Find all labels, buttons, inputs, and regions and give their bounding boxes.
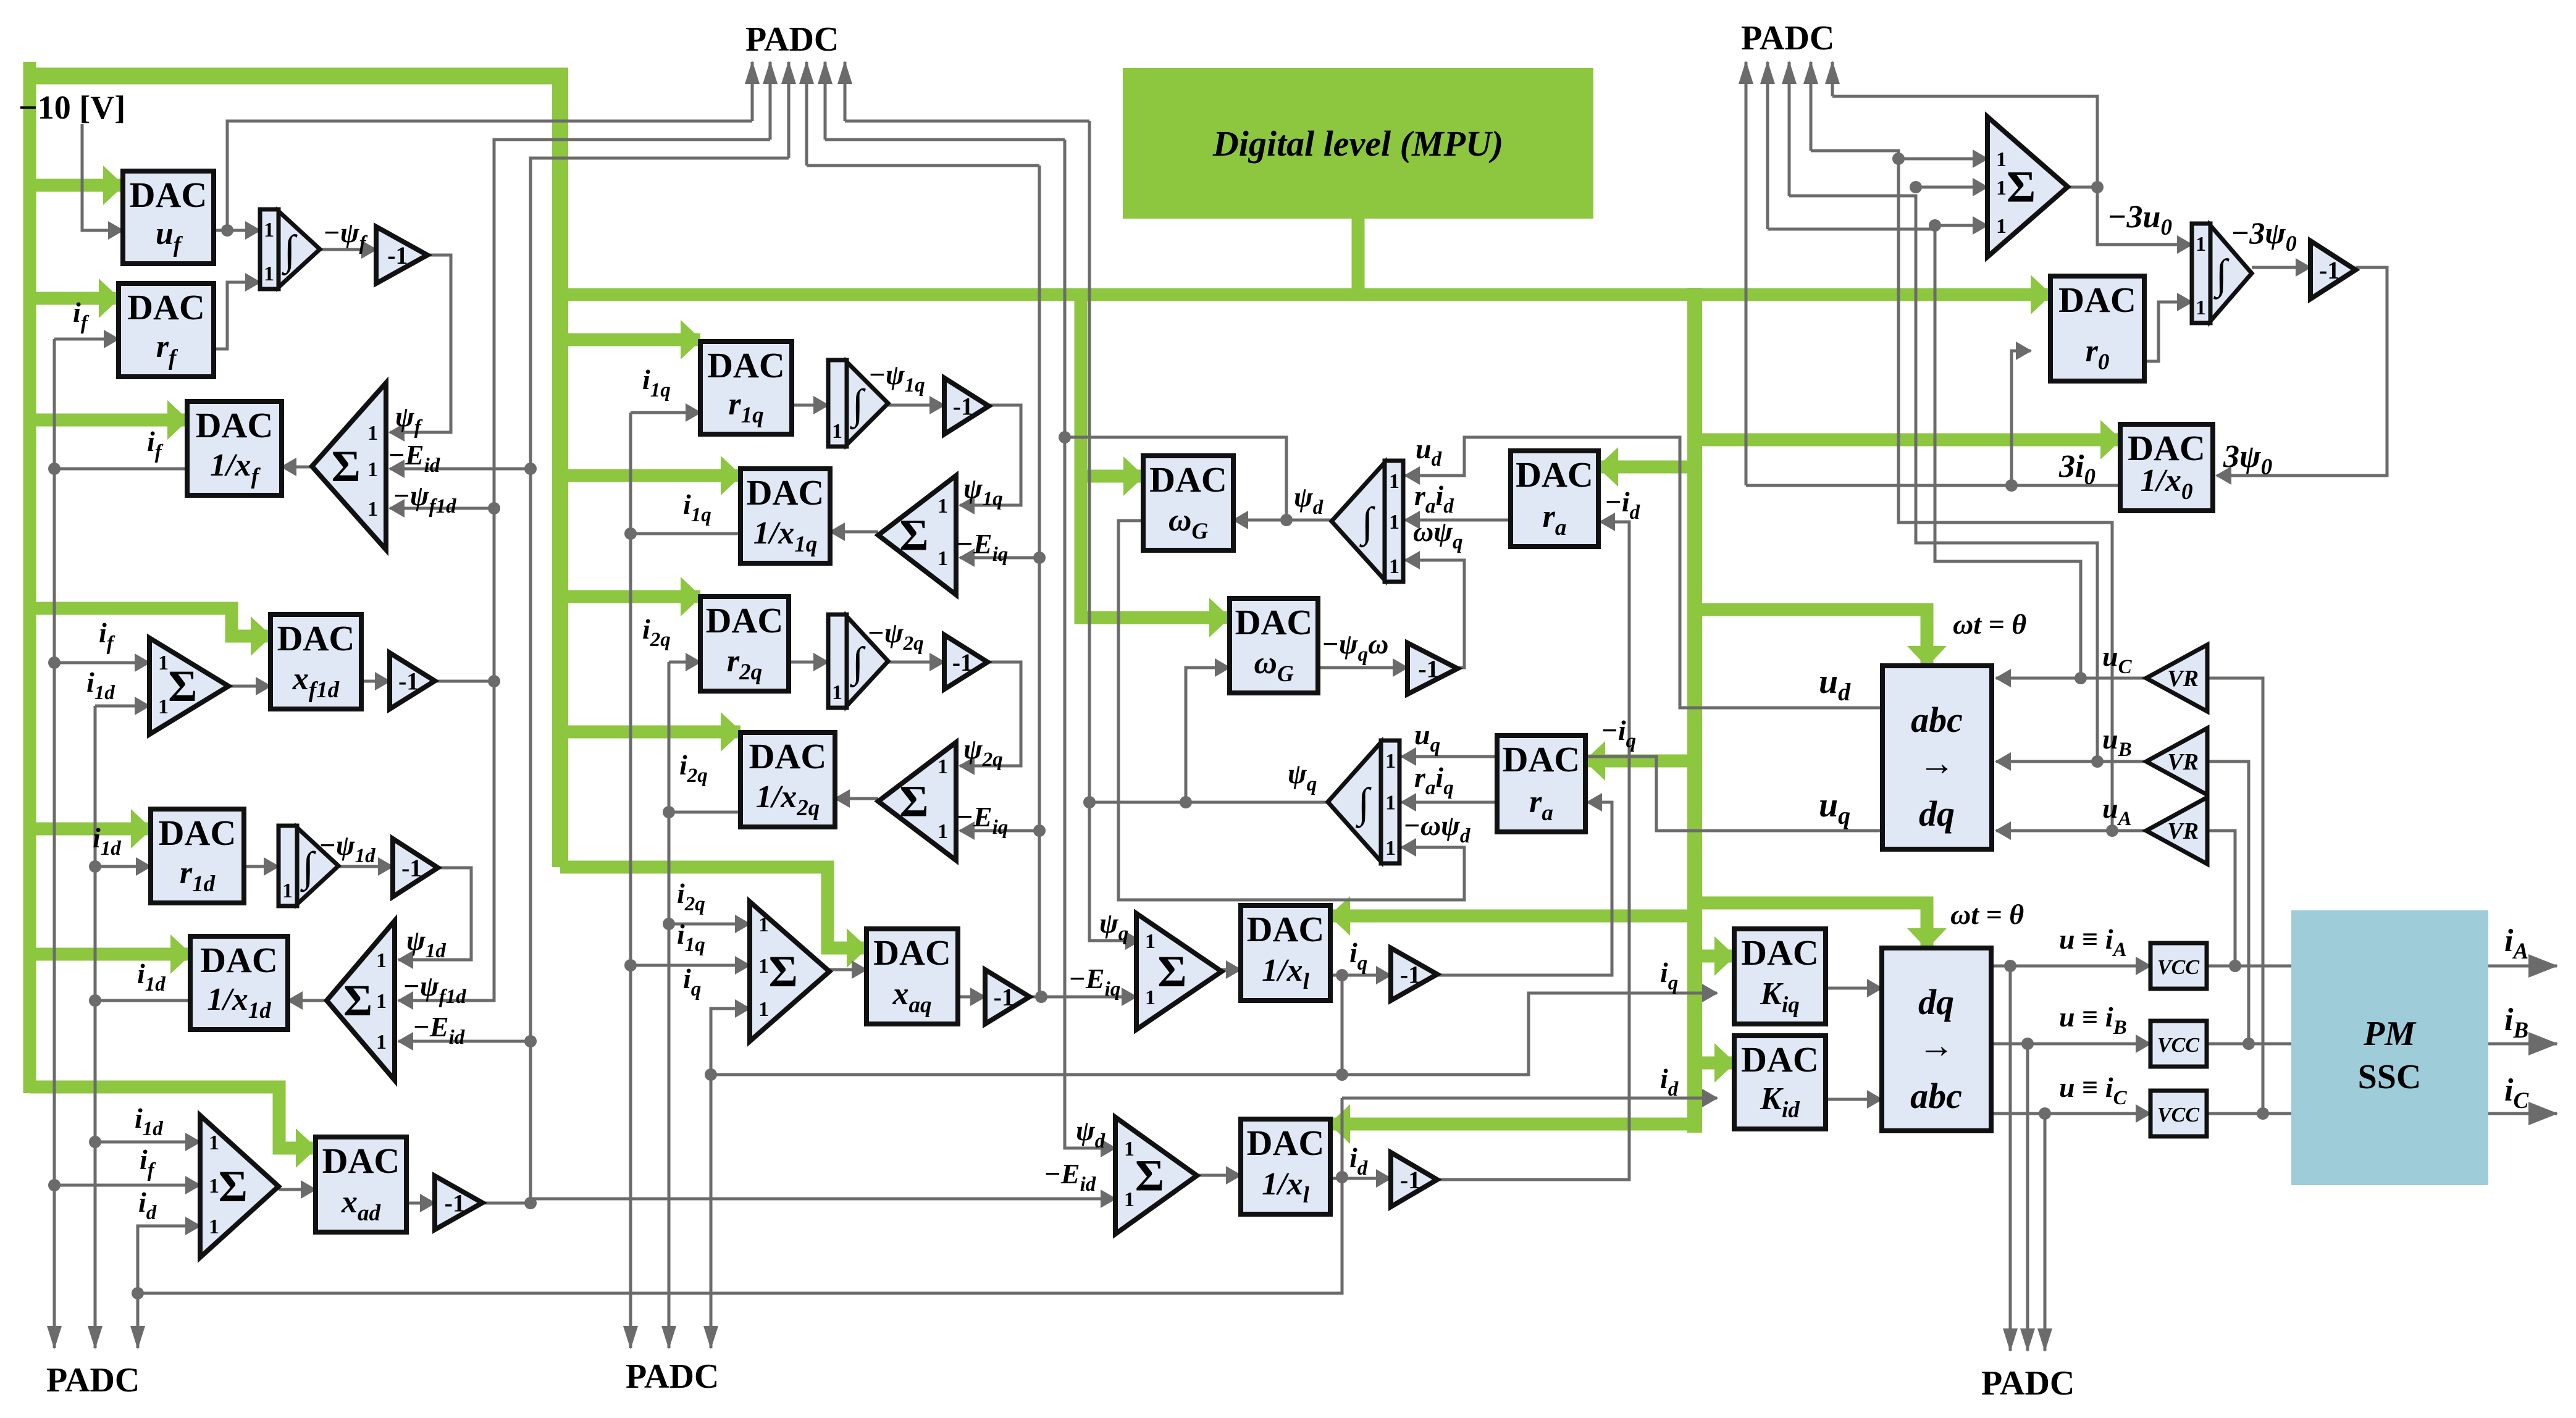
node -Eiq tee 1 [1033, 552, 1046, 564]
svg-text:1: 1 [938, 755, 948, 778]
node -Eid tee 2 [524, 1035, 537, 1047]
node psi_q tee 2 [1180, 796, 1192, 808]
wire w.psiq into integrator Id [1405, 560, 1464, 668]
node u=iC tee [2039, 1107, 2051, 1120]
svg-text:1: 1 [158, 695, 169, 718]
green stem from MPU box [1352, 217, 1365, 295]
summer S1xq (1/x1q) [878, 476, 956, 595]
integrator If (psi_f) [260, 209, 320, 289]
VR amplifier uC [2146, 645, 2207, 711]
green arrow into DAC 1/xl q [1330, 910, 1695, 923]
PADC3 arrow i1d [94, 1327, 97, 1348]
wire i1q into DAC r1q [631, 411, 700, 414]
wire 1/x1d out (i1d) to rail [95, 999, 190, 1002]
summer S1xd (1/x1d) [327, 921, 395, 1080]
node i1q tee 2 [624, 959, 637, 971]
wire psi_f to summer Sf [390, 255, 451, 432]
green arrow into DAC 1/x2q [560, 726, 740, 739]
svg-text:1: 1 [1389, 470, 1399, 493]
svg-text:1: 1 [1145, 986, 1156, 1009]
node i2q tee 1 [663, 806, 675, 818]
wire if vertical rail x=88 [53, 339, 56, 1327]
node -Eiq tee 2 [1033, 824, 1046, 837]
svg-text:1: 1 [2196, 296, 2206, 319]
wire iA output [2488, 965, 2557, 968]
svg-text:1: 1 [264, 219, 274, 241]
svg-text:1: 1 [1385, 792, 1396, 815]
wire if into summer Sxad [54, 1184, 200, 1187]
wire i2q vertical rail x=1083 [668, 662, 671, 1327]
svg-text:DAC: DAC [1235, 602, 1313, 642]
wire -3u0 into integrator I0 [2068, 187, 2192, 245]
summer Siq (1/xl) [1136, 913, 1222, 1030]
node uB tee [1910, 181, 1922, 193]
inverter -1 wG2 [1408, 643, 1458, 694]
wire ra.iq into integrator Iq [1401, 801, 1497, 804]
svg-text:-1: -1 [1400, 961, 1420, 989]
wire inverter xad out (-Eid) to rail [482, 1202, 531, 1205]
svg-text:1: 1 [758, 955, 769, 978]
svg-text:DAC: DAC [322, 1141, 400, 1181]
svg-text:ωt = θ: ωt = θ [1950, 899, 2024, 930]
wire -Eid into summer S1xd [398, 1040, 531, 1043]
wire VCC2 out to PM SSC [2207, 1043, 2291, 1046]
DAC xf1d [271, 615, 361, 709]
svg-text:-1: -1 [2319, 256, 2339, 284]
wire if into summer Sxf1d [54, 661, 149, 665]
wire summer S2xq out to DAC 1/x2q [835, 797, 878, 800]
svg-text:DAC: DAC [200, 940, 278, 980]
PADC1 arrow 4 [805, 62, 808, 166]
wire r1q out to integrator I1q [792, 404, 828, 407]
svg-text:DAC: DAC [1741, 1039, 1819, 1080]
DAC 1/xf [187, 401, 282, 495]
svg-text:1: 1 [832, 681, 842, 704]
green arrow into DAC xad [30, 1087, 316, 1148]
block PM SSC (synchronous machine) [2291, 910, 2488, 1185]
node 3i0 tee [2005, 479, 2018, 492]
VR amplifier uA [2146, 797, 2207, 864]
PADC4 arrow i2q [668, 1327, 671, 1348]
wire psi_d up over to x=1724 [1065, 437, 1286, 520]
wire uC rail [1768, 229, 2081, 678]
green branch to DAC wG2 [1081, 295, 1229, 618]
svg-text:-1: -1 [401, 854, 422, 882]
summer Sxf1d [149, 638, 229, 734]
svg-text:1: 1 [758, 913, 769, 936]
svg-text:DAC: DAC [277, 618, 355, 658]
node VCC3 out tee [2257, 1107, 2269, 1120]
wire i2q into DAC r2q [669, 661, 700, 664]
svg-text:DAC: DAC [196, 405, 274, 445]
wire -Eid into summer Sid [531, 1198, 1115, 1201]
svg-text:Σ: Σ [769, 947, 798, 996]
wire uC into summer S0 [1935, 224, 1987, 227]
wire VR uA feed x=3619 [2207, 831, 2235, 966]
wire i1d into DAC r1d [95, 865, 151, 868]
wire i2q into summer Sxaq [669, 923, 750, 926]
svg-text:-1: -1 [445, 1189, 465, 1217]
block Digital level (MPU) [1123, 68, 1593, 219]
svg-text:1: 1 [282, 879, 293, 902]
node iq rail tee [1336, 1068, 1348, 1081]
wire i1d vertical rail x=154 [94, 706, 97, 1327]
svg-text:VCC: VCC [2157, 956, 2199, 979]
wire psi_q to PADC1 line6 [845, 120, 1089, 123]
integrator I1d (psi_1d) [279, 826, 338, 906]
wire uB into summer S0 [1916, 186, 1987, 189]
wire u=iC into VCC3 [1991, 1112, 2150, 1115]
PADC3 arrow if [53, 1327, 56, 1348]
node if tee 3 [48, 1179, 61, 1191]
DAC r2q [700, 597, 789, 691]
wire i1q into summer Sxaq [631, 964, 750, 967]
svg-text:1: 1 [264, 262, 274, 285]
node -Eid source tee [524, 1197, 537, 1209]
svg-text:−10 [V]: −10 [V] [19, 89, 125, 126]
wire -psi2q to inverter [888, 661, 944, 664]
PADC2 arrow 5 [1831, 62, 1834, 96]
node -Eid tee 1 [524, 463, 537, 475]
DAC ra1 [1511, 451, 1598, 547]
green arrow into DAC rf [30, 292, 119, 305]
svg-text:Σ: Σ [1135, 1151, 1164, 1201]
svg-text:Σ: Σ [899, 777, 928, 826]
wire -10V into DAC uf [82, 124, 123, 230]
svg-text:1: 1 [938, 820, 948, 843]
svg-text:1: 1 [209, 1131, 219, 1154]
wire summer Sxf1d out to DAC xf1d [229, 685, 271, 688]
wire -psi_f to inverter [320, 248, 376, 251]
inverter -1 psi_1d [393, 839, 438, 897]
svg-text:1: 1 [1996, 215, 2007, 238]
wire iC output [2488, 1112, 2557, 1115]
node -Eiq source tee [1035, 991, 1047, 1003]
wire -psif1d rail x=800 to PADC1 line2 [494, 140, 770, 681]
PADC4 arrow i1q [629, 1327, 632, 1348]
svg-text:-1: -1 [952, 648, 973, 676]
svg-text:1: 1 [1145, 930, 1156, 953]
wire id out to inverter [1330, 1177, 1391, 1180]
wire -psif1d into summer S1xd [398, 681, 494, 1001]
green arrow into DAC xaq [560, 867, 866, 948]
svg-text:-1: -1 [953, 393, 973, 421]
wire -psi1q to inverter [888, 404, 944, 407]
svg-text:dq: dq [1919, 794, 1955, 834]
svg-text:VR: VR [2167, 818, 2199, 844]
DAC r1d [151, 809, 244, 903]
wire -psi1d to inverter [338, 865, 393, 868]
wire r1d out to integrator I1d [244, 865, 279, 868]
svg-text:1: 1 [938, 495, 948, 518]
wire -id into DAC ra1 [1437, 522, 1629, 1180]
DAC 1/xl q [1241, 905, 1330, 1001]
wire uB into abc-dq [1996, 760, 2146, 763]
svg-text:VCC: VCC [2157, 1104, 2199, 1126]
svg-text:1: 1 [832, 420, 842, 443]
PADC5 arrow iC [2044, 1114, 2047, 1351]
svg-text:Σ: Σ [343, 976, 372, 1025]
wire -3u0 to PADC2 [1832, 96, 2097, 187]
summer S2xq (1/x2q) [878, 742, 956, 860]
wire id into summer Sxad [138, 1226, 200, 1327]
node iq tee 1 [705, 1068, 717, 1081]
wire xaq out to inverter [958, 996, 985, 999]
DAC Kiq [1734, 929, 1826, 1024]
wire summer Sxaq out to DAC xaq [829, 968, 866, 971]
green bus: left vertical [23, 62, 36, 1093]
VR amplifier uB [2146, 728, 2207, 795]
inverter -1 psi_2q [944, 635, 988, 689]
svg-text:Σ: Σ [219, 1162, 248, 1211]
svg-text:DAC: DAC [706, 600, 784, 640]
wire iq into summer Sxaq [711, 1009, 750, 1075]
svg-text:1: 1 [376, 1031, 387, 1054]
wire uC into abc-dq [1996, 677, 2146, 680]
svg-text:DAC: DAC [130, 175, 208, 215]
integrator Id (psi_d) [1332, 461, 1403, 582]
svg-text:DAC: DAC [2128, 428, 2205, 468]
wire 3psi0 into DAC 1/x0 [2217, 267, 2387, 476]
wire -Eiq into summer Siq [1039, 996, 1136, 999]
svg-text:1: 1 [1385, 750, 1396, 773]
green arrow into DAC uf [30, 179, 123, 192]
DAC 1/x1q [740, 469, 830, 563]
wire id into DAC Kid [1342, 1097, 1717, 1100]
integrator I2q (psi_2q) [828, 615, 888, 708]
green arrow wt=theta into abc-dq [1695, 610, 1927, 666]
wire -3psi0 to inverter [2252, 266, 2310, 269]
green arrow into DAC 1/xl d [1330, 1118, 1695, 1131]
svg-text:Σ: Σ [332, 442, 361, 491]
svg-text:DAC: DAC [1516, 455, 1593, 495]
wire 1/x2q out (i2q) to rail [669, 811, 740, 814]
svg-text:DAC: DAC [1741, 933, 1819, 973]
VCC converter C [2150, 1091, 2207, 1136]
PADC2 arrow 1 [1745, 62, 1748, 485]
svg-text:DAC: DAC [1247, 1123, 1325, 1163]
inverter -1 3psi0 [2310, 241, 2356, 299]
svg-text:1: 1 [938, 547, 948, 570]
node -psif1d tee 1 [488, 502, 500, 514]
svg-text:DAC: DAC [1247, 909, 1325, 949]
DAC uf [123, 171, 214, 264]
node u=iB tee [2021, 1038, 2034, 1050]
wire xad out to inverter [406, 1202, 435, 1205]
node if tee 2 [48, 657, 61, 669]
wire uA into summer S0 [1898, 157, 1987, 161]
node i1d tee 3 [89, 1136, 101, 1148]
wire xf1d out to inverter [361, 680, 390, 683]
svg-text:1: 1 [158, 652, 169, 674]
green arrow wt=theta into dq-abc [1695, 903, 1927, 948]
svg-text:1: 1 [1996, 177, 2007, 199]
svg-text:dq: dq [1918, 982, 1954, 1022]
wire summer Sid out to DAC 1/xl d [1197, 1174, 1241, 1177]
DAC 1/x1d [190, 936, 288, 1030]
wire if into DAC rf [54, 338, 119, 341]
svg-text:1: 1 [1124, 1188, 1135, 1211]
DAC r0 [2050, 276, 2144, 381]
inverter -1 xad [435, 1176, 482, 1230]
svg-text:→: → [1919, 743, 1955, 783]
svg-text:1: 1 [209, 1175, 219, 1198]
PADC5 arrow iB [2026, 1044, 2029, 1351]
DAC ra2 [1497, 736, 1585, 832]
wire summer S1xq out to DAC 1/x1q [830, 531, 878, 534]
inverter -1 xaq [985, 970, 1030, 1024]
wire -Eiq rail x=1683 [1038, 166, 1041, 997]
wire psi_d rail x=1724 into summer Sid [1065, 140, 1115, 1148]
wire r2q out to integrator I2q [789, 661, 828, 664]
svg-text:-1: -1 [1418, 655, 1438, 683]
wire psi_d to PADC1 line5 [825, 138, 1065, 141]
summer Sf (1/xf) [312, 383, 386, 550]
wire uA rail [1811, 151, 2112, 831]
node uC wire tee [2075, 672, 2087, 684]
svg-text:1: 1 [1996, 148, 2007, 171]
node uB wire tee [2091, 755, 2104, 768]
svg-text:-1: -1 [994, 983, 1014, 1011]
DAC r1q [700, 342, 792, 434]
DAC 1/xl d [1241, 1119, 1330, 1214]
DAC xaq [866, 929, 958, 1024]
summer Sxad [200, 1115, 279, 1257]
svg-text:1: 1 [1389, 511, 1399, 534]
svg-text:PADC: PADC [1741, 19, 1834, 57]
wire psi_q from integrator Iq [1089, 801, 1330, 804]
svg-text:DAC: DAC [1149, 459, 1227, 500]
PADC2 arrow 2 [1766, 62, 1769, 229]
summer S0 (-3u0) [1987, 117, 2068, 257]
PADC5 arrow iA [2009, 966, 2012, 1351]
node id out tee [1336, 1171, 1348, 1183]
svg-text:1: 1 [1124, 1138, 1135, 1160]
svg-text:VCC: VCC [2157, 1034, 2199, 1057]
VCC converter A [2150, 943, 2207, 989]
svg-text:-1: -1 [398, 668, 419, 695]
svg-text:DAC: DAC [2058, 280, 2136, 320]
node psi_q tee 1 [1083, 796, 1096, 808]
wire psi_q into DAC wG2 [1186, 668, 1230, 802]
wire psi1d into summer S1xd [398, 868, 471, 960]
DAC xad [316, 1137, 406, 1232]
wire iB output [2488, 1043, 2557, 1046]
wire -psiq.w to inverter [1318, 666, 1408, 669]
wire uB rail [1789, 196, 2097, 761]
wire -psif1d into summer Sf [390, 507, 494, 510]
svg-text:PM: PM [2363, 1015, 2417, 1053]
svg-text:abc: abc [1911, 700, 1963, 740]
inverter -1 psi_1q [944, 378, 989, 434]
wire iq down to rail [1341, 975, 1344, 1075]
svg-text:-1: -1 [1400, 1166, 1420, 1194]
wire psi_q rail x=1764 into summer Siq [1089, 121, 1140, 941]
wire u_d from abc-dq to integrator Id [1405, 437, 1882, 708]
svg-text:VR: VR [2167, 749, 2199, 775]
node uC tee [1929, 219, 1941, 232]
svg-text:Σ: Σ [168, 661, 197, 711]
green arrow into DAC ra1 [1598, 461, 1695, 474]
svg-text:DAC: DAC [873, 933, 951, 973]
wire summer Siq out to DAC 1/xl q [1222, 968, 1241, 971]
wire 1/xf out (if) to left rail [54, 468, 187, 471]
node VCC1 out tee [2229, 960, 2241, 972]
inverter -1 psi_f [376, 227, 427, 283]
block abc->dq transform [1882, 666, 1992, 849]
wire 3i0 out to PADC2 line1 [1746, 484, 2120, 487]
svg-text:Σ: Σ [899, 511, 928, 560]
svg-text:DAC: DAC [127, 287, 205, 327]
green arrow into DAC Kid [1695, 1057, 1734, 1070]
block dq->abc transform [1882, 948, 1991, 1131]
node id corner tee [132, 1287, 144, 1299]
svg-text:DAC: DAC [707, 345, 785, 385]
wire i1d into summer Sxf1d [95, 705, 149, 708]
DAC 1/x0 [2120, 424, 2213, 511]
svg-text:DAC: DAC [747, 472, 824, 513]
wire VCC1 out to PM SSC [2207, 965, 2291, 968]
svg-text:1/xl: 1/xl [1262, 1167, 1309, 1208]
green arrow into DAC 1/x1q [560, 469, 740, 482]
summer Sid (1/xl) [1115, 1117, 1197, 1234]
wire iq rail into DAC Kiq [711, 993, 1717, 1075]
PADC1 arrow 6 [844, 62, 847, 121]
wire ra.id into integrator Id [1405, 519, 1511, 522]
wire summer Sf out to DAC 1/xf [282, 466, 316, 469]
svg-text:Digital level (MPU): Digital level (MPU) [1212, 124, 1503, 164]
inverter -1 xf1d [390, 653, 435, 709]
green arrow into DAC xf1d [30, 608, 271, 636]
node if tee 1 [48, 463, 61, 475]
svg-text:DAC: DAC [749, 736, 827, 776]
green arrow into DAC r1q [560, 334, 700, 346]
DAC rf [119, 283, 214, 377]
svg-text:→: → [1918, 1025, 1954, 1065]
wire -Eid rail x=859 to PADC1 line3 [531, 158, 789, 1203]
node -psif1d source tee [488, 675, 500, 687]
green arrow into DAC r2q [560, 590, 700, 603]
svg-text:1: 1 [2196, 233, 2206, 256]
VCC converter B [2150, 1021, 2207, 1067]
DAC wG1 [1143, 456, 1233, 550]
DAC wG2 [1230, 598, 1318, 693]
node psi_d tee [1059, 431, 1071, 443]
wire id vertical x=2173 [1341, 1098, 1344, 1293]
green arrow into DAC Kiq [1695, 950, 1734, 963]
PADC1 arrow 5 [824, 62, 827, 140]
wire -iq into DAC ra2 [1437, 802, 1612, 975]
PADC3 arrow id [136, 1327, 140, 1348]
wire summer S1xd out to DAC 1/x1d [288, 999, 327, 1002]
wire i1d into summer Sxad [95, 1141, 200, 1144]
wire -Eiq to PADC1 line4 [807, 164, 1039, 167]
DAC 1/x2q [740, 732, 835, 827]
svg-text:PADC: PADC [1981, 1364, 2075, 1403]
wire -Eiq into summer S1xq [960, 556, 1039, 560]
svg-text:ωt = θ: ωt = θ [1953, 608, 2026, 640]
PADC1 arrow 2 [769, 62, 772, 140]
svg-text:1/xl: 1/xl [1262, 953, 1309, 994]
wire -Eiq into summer S2xq [960, 829, 1039, 833]
inverter -1 id [1391, 1152, 1437, 1207]
PADC1 arrow 3 [787, 62, 791, 158]
wire -Eid into summer Sf [390, 468, 531, 471]
svg-text:1: 1 [1389, 555, 1399, 578]
wire VR uB feed x=3641 [2207, 761, 2249, 1044]
PADC1 arrow 1 [751, 62, 754, 121]
svg-text:1: 1 [209, 1215, 219, 1238]
